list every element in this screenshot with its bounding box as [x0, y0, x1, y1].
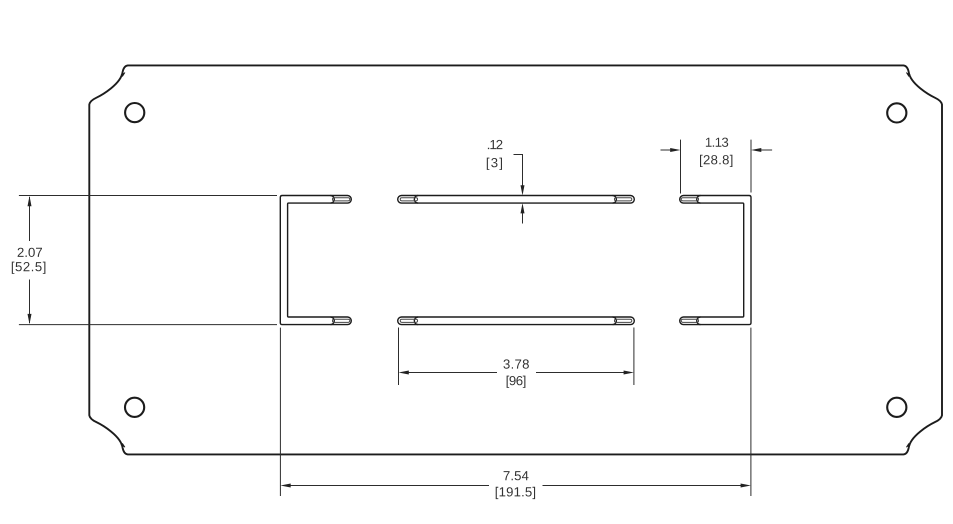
extension line top	[19, 195, 277, 197]
dimension line upper segment	[29, 197, 31, 241]
dimension 7.54 [191.5] bottom overall	[280, 328, 751, 500]
dimension line lower segment	[29, 280, 31, 324]
text 1.13	[706, 138, 728, 147]
extension line left	[398, 328, 400, 386]
slot top right inner cap arc	[613, 196, 617, 204]
arrow pointing right	[624, 371, 634, 375]
U-slot right	[680, 196, 751, 325]
slot top left relief capsule	[400, 198, 417, 201]
U-slot left top arm relief capsule	[332, 198, 349, 201]
corner relief tick bottom-right	[906, 444, 910, 448]
dimension 2.07 [52.5] left side	[12, 196, 277, 325]
mounting hole bottom-left	[125, 398, 144, 417]
U-slot left top arm end cap arc	[331, 196, 335, 204]
dimension line left segment	[408, 372, 497, 374]
extension line bottom	[19, 324, 277, 326]
text 3.78	[504, 359, 529, 368]
text [96]	[507, 376, 526, 388]
slot top middle	[398, 196, 635, 204]
arrow pointing right	[741, 484, 751, 488]
dimension line right outside segment	[761, 149, 772, 151]
dimension line right segment	[543, 485, 742, 487]
arrow up to slot bottom	[521, 203, 525, 213]
mounting hole top-right	[887, 103, 906, 122]
slot top left inner cap arc	[414, 196, 418, 204]
U-slot right top arm end cap arc	[697, 196, 701, 204]
mounting hole bottom-right	[887, 398, 906, 417]
arrow down to slot top	[521, 185, 525, 195]
arrow pointing left	[399, 371, 409, 375]
corner relief tick top-left	[121, 73, 125, 77]
plate outline with ogee corner reliefs	[89, 65, 942, 454]
arrow pointing left	[280, 484, 290, 488]
leader tail below	[522, 213, 524, 224]
dimension line left outside segment	[661, 149, 672, 151]
arrow down	[28, 314, 32, 324]
text [52.5]	[12, 262, 46, 274]
arrow up	[28, 196, 32, 206]
text [191.5]	[496, 487, 535, 499]
U-slot right top arm relief capsule	[681, 198, 698, 201]
slot bottom middle	[398, 317, 635, 325]
dimension line right segment	[536, 372, 624, 374]
extension line right	[633, 328, 635, 386]
U-slot left bottom arm relief capsule	[332, 319, 349, 322]
U-slot right bottom arm end cap arc	[697, 317, 701, 325]
text [28.8]	[700, 155, 732, 167]
extension line left at arm tip	[680, 140, 682, 194]
slot bottom right relief capsule	[614, 319, 631, 322]
U-slot left bottom arm end cap arc	[331, 317, 335, 325]
dimension .12 [3] slot width leader	[487, 140, 525, 224]
dimension line left segment	[290, 485, 489, 487]
extension line right	[750, 328, 752, 496]
text 7.54	[504, 471, 529, 480]
extension line right at U outer edge	[750, 140, 752, 193]
slot bottom left relief capsule	[400, 319, 417, 322]
U-slot right bottom arm relief capsule	[681, 319, 698, 322]
slot bottom left inner cap arc	[414, 317, 418, 325]
text .12	[488, 140, 503, 149]
mounting hole top-left	[125, 103, 144, 122]
slot bottom right inner cap arc	[613, 317, 617, 325]
text 2.07	[18, 248, 42, 257]
U-slot left	[280, 196, 351, 325]
dimension 3.78 [96] below bottom slot	[399, 328, 634, 388]
arrow pointing left	[751, 148, 761, 152]
leader bend	[514, 155, 523, 187]
corner relief tick top-right	[906, 73, 910, 77]
corner relief tick bottom-left	[121, 444, 125, 448]
slot top right relief capsule	[614, 198, 631, 201]
arrow pointing right	[670, 148, 680, 152]
dimension 1.13 [28.8] top right	[661, 138, 773, 194]
text [3]	[487, 158, 502, 170]
extension line left	[279, 328, 281, 496]
